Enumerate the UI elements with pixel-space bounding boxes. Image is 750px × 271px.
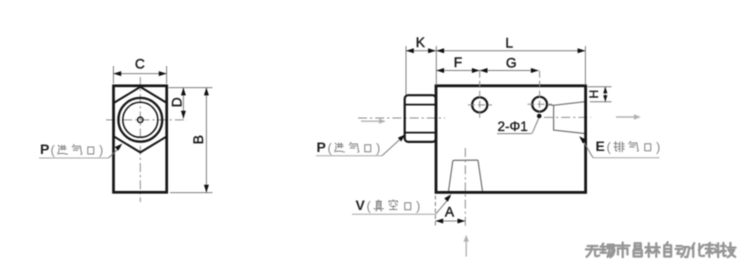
svg-text:C: C xyxy=(135,57,145,72)
dimension D xyxy=(169,88,213,119)
svg-text:L: L xyxy=(505,36,513,51)
dimension F xyxy=(436,55,479,73)
top port hole 2 xyxy=(532,97,547,112)
svg-text:): ) xyxy=(376,140,380,155)
svg-text:A: A xyxy=(445,205,455,220)
port inner circle xyxy=(123,102,158,137)
svg-text:V: V xyxy=(356,197,366,213)
svg-text:(: ( xyxy=(51,143,56,158)
inlet flow arrow xyxy=(361,119,386,124)
svg-text:G: G xyxy=(506,56,517,71)
svg-text:E: E xyxy=(596,138,606,154)
dimension C xyxy=(113,57,166,84)
svg-text:): ) xyxy=(656,139,660,154)
svg-text:K: K xyxy=(416,35,426,50)
hole 1 centerlines xyxy=(479,71,481,120)
dimension A xyxy=(435,196,465,228)
watermark company name xyxy=(586,242,736,257)
svg-text:B: B xyxy=(191,135,206,144)
left view horizontal centerline xyxy=(106,119,187,121)
P air-inlet label (side view) xyxy=(316,134,405,155)
port outer circle xyxy=(118,98,162,142)
inlet hex nut (side view) xyxy=(405,95,436,142)
svg-text:(: ( xyxy=(328,140,333,155)
svg-text:P: P xyxy=(317,139,327,155)
vacuum port centerline xyxy=(464,148,466,228)
dimension H xyxy=(587,87,612,102)
svg-text:F: F xyxy=(454,55,462,70)
svg-text:D: D xyxy=(170,97,185,107)
port center hole xyxy=(138,117,143,122)
left view vertical centerline xyxy=(139,77,141,202)
E exhaust label xyxy=(579,136,660,158)
dimension B xyxy=(170,88,213,193)
svg-text:(: ( xyxy=(367,198,372,213)
vacuum port cone (hidden profile) xyxy=(448,160,482,192)
svg-text:(: ( xyxy=(607,139,612,154)
svg-text:): ) xyxy=(99,143,103,158)
svg-text:): ) xyxy=(416,198,420,213)
right view horizontal centerline xyxy=(358,117,445,119)
body outline xyxy=(436,86,586,193)
vacuum flow arrow xyxy=(464,235,469,257)
dimension G xyxy=(480,56,539,74)
top port hole 1 xyxy=(472,97,487,112)
dimension K xyxy=(406,35,436,95)
hole 2 centerlines xyxy=(539,71,541,112)
hole count label 2-PHI-1 xyxy=(497,114,542,134)
left view body rectangle xyxy=(114,86,167,193)
svg-text:2-Φ1: 2-Φ1 xyxy=(498,119,528,134)
dimension L xyxy=(436,36,585,86)
exhaust flow arrow xyxy=(616,114,641,119)
V vacuum label xyxy=(352,194,451,214)
hex nut front view xyxy=(114,87,167,152)
P air-inlet label (front view) xyxy=(39,141,122,158)
exhaust diffuser profile xyxy=(548,102,585,134)
svg-text:P: P xyxy=(40,141,50,157)
svg-text:H: H xyxy=(587,90,601,99)
